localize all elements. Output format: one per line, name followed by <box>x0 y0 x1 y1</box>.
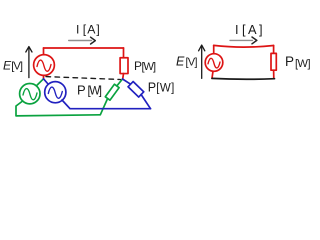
resistor load R2 (green phase) P[W] <box>105 84 119 100</box>
svg-text:[W]: [W] <box>88 86 103 98</box>
arrow I[A] direction (left, pointing right) <box>69 37 96 44</box>
wire black: bottom rail (right circuit) <box>212 77 275 80</box>
dashed neutral link N to A <box>46 77 121 80</box>
svg-text:[A]: [A] <box>242 22 263 37</box>
wire blue: bottom rail <box>62 100 151 109</box>
wire red: V1 top to top rail <box>43 48 45 55</box>
wire red: V1 bottom to junction N <box>43 75 45 78</box>
svg-text:E: E <box>176 54 185 68</box>
wire red: top rail down to load R4 <box>273 46 275 54</box>
svg-text:I: I <box>235 22 239 37</box>
wire red: V4 bottom to bottom rail <box>212 71 213 78</box>
wire red: top rail down to load R1 <box>123 48 125 58</box>
svg-text:I: I <box>76 23 79 37</box>
wire red: top rail (right) <box>214 45 274 47</box>
wire blue: load R3 to bottom corner <box>141 95 150 109</box>
svg-text:[V]: [V] <box>186 56 198 68</box>
ac source V1 (red phase) <box>34 55 55 76</box>
wire green: junction N to V2 top <box>37 79 43 85</box>
ac source V4 (red, right circuit) <box>205 54 223 72</box>
arrow E[V] direction (right, pointing up) <box>199 45 205 78</box>
resistor load R4 (right circuit) P[W] <box>271 53 276 70</box>
resistor load R1 (red phase) P[W] <box>120 58 128 74</box>
wire red: R1 bottom to junction A <box>122 74 125 79</box>
wire red: R4 bottom to bottom rail <box>273 70 275 78</box>
svg-text:[W]: [W] <box>142 61 157 73</box>
arrow I[A] direction (right, pointing right) <box>230 37 257 44</box>
wire green: load R2 to junction A <box>117 79 123 86</box>
arrow E[V] direction (left, pointing up) <box>26 47 32 78</box>
svg-text:[A]: [A] <box>83 23 100 37</box>
wire red: V4 top to top rail (right) <box>213 45 215 53</box>
wire blue: junction N to V3 top <box>44 79 48 84</box>
svg-text:P: P <box>148 81 156 95</box>
svg-text:P: P <box>285 54 294 69</box>
wire red: top rail <box>44 47 124 49</box>
svg-text:[W]: [W] <box>295 58 311 70</box>
svg-text:P: P <box>77 83 86 98</box>
ac source V3 (blue phase) <box>45 82 66 103</box>
resistor load R3 (blue phase) P[W] <box>128 82 144 98</box>
ac source V2 (green phase) <box>20 84 40 104</box>
wire green: V2 bottom to bottom rail <box>16 102 100 116</box>
svg-text:[W]: [W] <box>156 83 174 95</box>
svg-text:[V]: [V] <box>11 60 23 72</box>
wire blue: junction A to load R3 <box>123 79 131 84</box>
wire green: bottom rail up to load R2 <box>100 99 107 115</box>
